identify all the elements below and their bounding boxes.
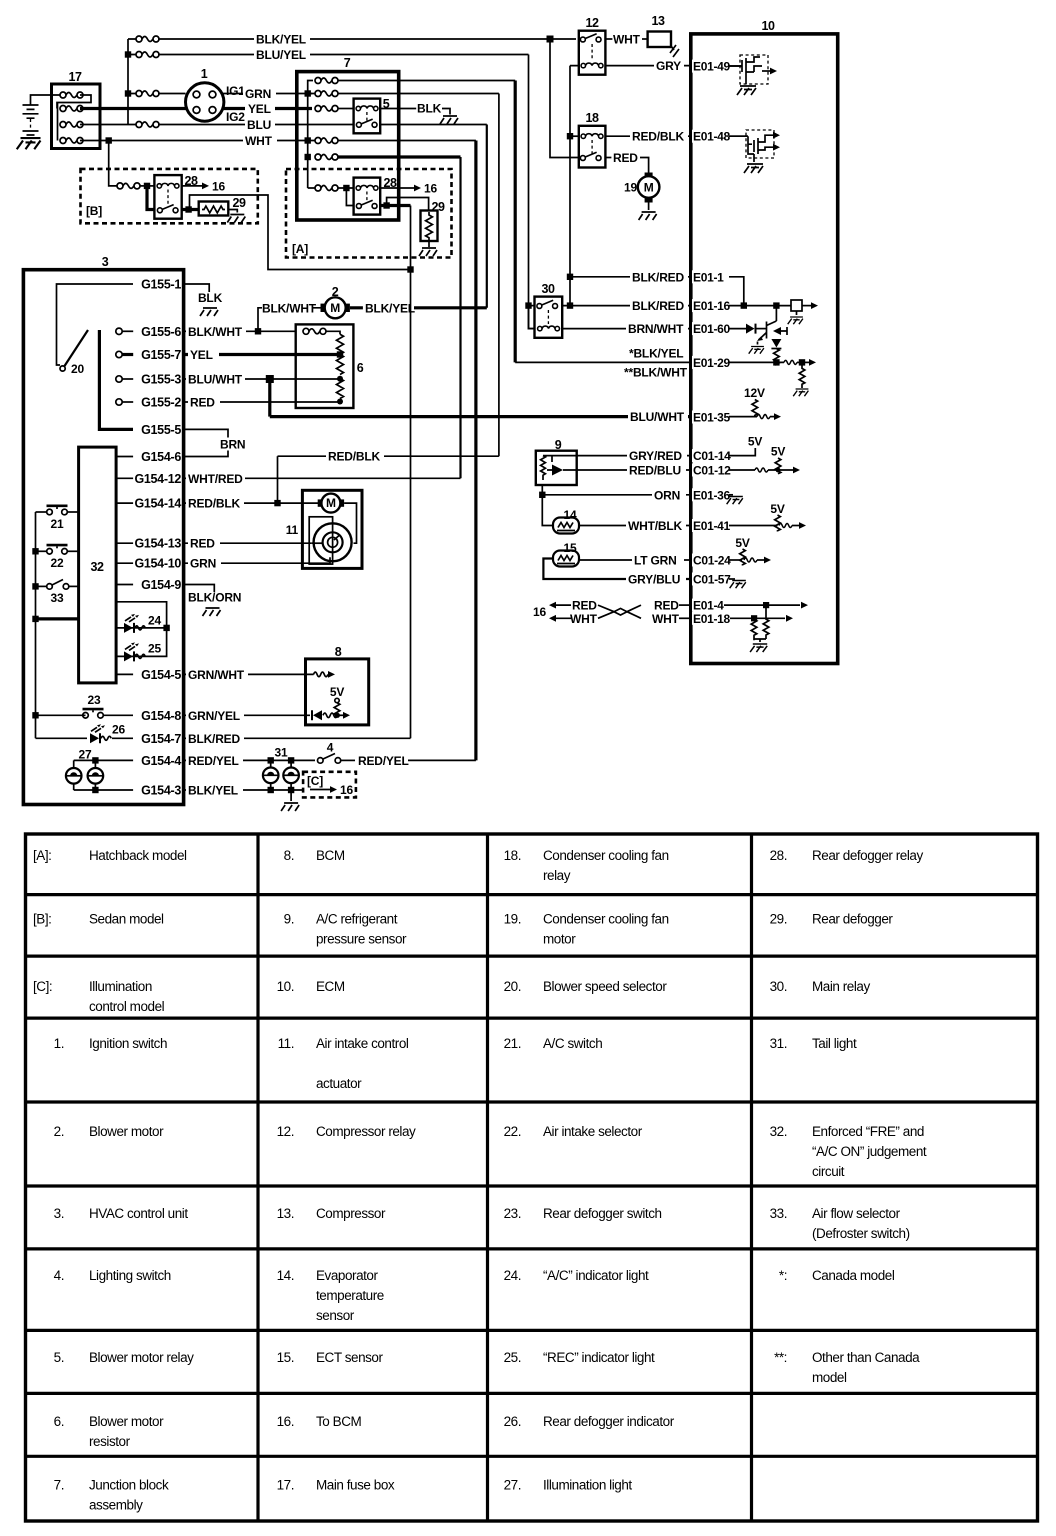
wire sedan tap up and right to x268	[190, 195, 411, 270]
svg-text:To BCM: To BCM	[316, 1414, 362, 1429]
blower motor 2	[321, 297, 350, 318]
svg-text:G155-1: G155-1	[141, 278, 181, 292]
svg-text:RED/BLK: RED/BLK	[188, 497, 240, 511]
wire BRN U link G155-5 to G154-6	[184, 429, 228, 456]
svg-text:BLU/WHT: BLU/WHT	[188, 373, 243, 387]
wire ground stub lamp31	[290, 790, 292, 801]
svg-text:BLK/RED: BLK/RED	[188, 732, 240, 746]
wire sensor9 bottom chain	[542, 485, 553, 526]
resistor E01-18 branch	[751, 618, 757, 640]
legend 6 Blower motor resistor	[54, 1414, 164, 1449]
svg-text:G154-13: G154-13	[134, 537, 181, 551]
pin G154-14	[134, 497, 181, 511]
label 22	[51, 556, 64, 570]
wire vertical x460.5 thick fuseD to WHT/RED	[459, 157, 461, 478]
svg-text:GRN/YEL: GRN/YEL	[188, 709, 240, 723]
wire BLK/RED row G154-7	[184, 737, 411, 739]
svg-text:5V: 5V	[330, 685, 344, 699]
svg-text:HVAC control unit: HVAC control unit	[89, 1206, 188, 1221]
svg-text:E01-35: E01-35	[693, 411, 731, 425]
label BLK/YEL	[254, 32, 310, 47]
svg-text:C01-12: C01-12	[693, 464, 731, 478]
legend 19 Condenser cooling fan motor	[504, 912, 669, 947]
label 15	[564, 541, 577, 555]
wire WHT/RED row G154-12	[184, 477, 461, 479]
label E01-60	[692, 322, 731, 336]
svg-text:BLK/WHT: BLK/WHT	[262, 301, 317, 315]
legend 5 Blower motor relay	[54, 1350, 194, 1365]
wire E01-49 row	[729, 65, 742, 67]
wire switch output sedan to resistor29	[182, 208, 199, 211]
svg-text:RED/BLU: RED/BLU	[629, 464, 681, 478]
wire E01-1 row	[570, 276, 691, 278]
node dot sw33	[32, 583, 38, 589]
resistor 5V E01-41	[775, 515, 781, 532]
svg-text:10: 10	[762, 19, 775, 33]
svg-text:Rear defogger switch: Rear defogger switch	[543, 1206, 662, 1221]
wire BLU fuse row from bus	[128, 124, 297, 126]
label WHT	[243, 134, 277, 148]
wire G155-1 internal to switch 20	[57, 284, 134, 365]
svg-text:G155-6: G155-6	[141, 325, 181, 339]
svg-text:C01-57: C01-57	[693, 573, 731, 587]
wire G154-3 row internal	[74, 789, 133, 791]
legend 30 Main relay	[770, 979, 871, 994]
node dot bus GRN row	[305, 90, 311, 96]
svg-text:24.: 24.	[504, 1268, 521, 1283]
legend 29 Rear defogger	[770, 912, 894, 927]
ground mosfet1	[737, 86, 756, 95]
wire G155-1 to BLK ground	[184, 284, 210, 292]
label [A]	[292, 242, 308, 256]
legend 33 Air flow selector (Defroster s	[770, 1206, 910, 1241]
rear defogger relay 28 hatchback	[354, 178, 381, 215]
label BLK/WHT blower	[262, 301, 317, 315]
svg-text:G154-8: G154-8	[141, 709, 181, 723]
wire E01-18 internal	[730, 615, 793, 622]
ground BLK G155-1	[200, 308, 218, 316]
label 8	[335, 645, 342, 659]
wire E01-16 internal	[729, 305, 791, 307]
svg-text:30: 30	[542, 282, 555, 296]
node dot sedan fuse out	[144, 183, 150, 189]
fuse on GRN row	[136, 91, 159, 97]
wire G154-14 stub	[116, 502, 133, 504]
svg-text:3.: 3.	[54, 1206, 64, 1221]
svg-text:BLU: BLU	[247, 118, 271, 132]
blower speed selector 20	[60, 330, 88, 371]
svg-text:7: 7	[344, 56, 351, 70]
svg-text:21.: 21.	[504, 1036, 521, 1051]
svg-text:BLK/ORN: BLK/ORN	[188, 591, 241, 605]
pin G154-8	[141, 709, 181, 723]
svg-text:14.: 14.	[277, 1268, 294, 1283]
label 29 sedan	[233, 196, 246, 210]
actuator position sensor 11	[309, 517, 351, 564]
label 13	[652, 14, 665, 28]
label ORN	[652, 488, 686, 502]
label GRY/RED	[627, 449, 687, 463]
wire bus vertical x128	[127, 39, 129, 125]
legend [A] Hatchback model	[33, 848, 187, 863]
fuse on YEL row in box7	[315, 106, 338, 112]
resistor E01-4 branch	[763, 605, 769, 639]
wire BLK/YEL row G154-3	[184, 789, 304, 791]
svg-text:29: 29	[233, 196, 246, 210]
svg-text:RED: RED	[613, 151, 638, 165]
svg-text:32: 32	[91, 560, 104, 574]
mosfet E01-48	[729, 130, 780, 162]
legend 8 BCM	[284, 848, 345, 863]
wire fuse E row to relay 28	[308, 187, 354, 189]
label BLU/WHT E01-35	[628, 410, 688, 424]
label RED/YEL right	[358, 754, 409, 768]
label BLK/RED E01-1	[630, 270, 688, 284]
wire G154-9 stub	[116, 584, 133, 586]
svg-text:“A/C ON” judgement: “A/C ON” judgement	[812, 1144, 927, 1159]
svg-text:RED/YEL: RED/YEL	[188, 754, 239, 768]
legend 12 Compressor relay	[277, 1124, 416, 1139]
label 16 box C	[340, 783, 353, 797]
rear defogger 29 hatchback	[421, 211, 438, 242]
svg-text:Illumination light: Illumination light	[543, 1477, 632, 1492]
ground C01-57	[729, 579, 746, 588]
svg-text:M: M	[644, 181, 654, 195]
A/C switch 21	[36, 505, 79, 515]
label 19	[624, 181, 637, 195]
svg-text:Air intake control: Air intake control	[316, 1036, 409, 1051]
svg-text:5V: 5V	[770, 502, 784, 516]
label 12V	[744, 386, 765, 400]
label 14	[564, 508, 577, 522]
svg-text:19.: 19.	[504, 912, 521, 927]
legend 26 Rear defogger indicator	[504, 1414, 675, 1429]
svg-text:30.: 30.	[770, 979, 787, 994]
transistor E01-60	[749, 321, 787, 354]
label BLK/YEL blower	[365, 301, 415, 315]
label 5V E01-41	[770, 502, 784, 516]
ground under battery	[17, 138, 41, 149]
svg-text:9.: 9.	[284, 912, 294, 927]
svg-text:RED/YEL: RED/YEL	[358, 754, 409, 768]
wire LT GRN row	[579, 559, 691, 561]
legend 17 Main fuse box	[277, 1477, 395, 1492]
ground motor 19	[639, 212, 657, 220]
svg-text:Compressor relay: Compressor relay	[316, 1124, 416, 1139]
label C01-24	[692, 554, 731, 568]
label RED/BLK upper	[326, 450, 384, 464]
svg-text:Main fuse box: Main fuse box	[316, 1477, 395, 1492]
wire vertical x486.8 BLU to BLK/YEL	[486, 125, 488, 308]
wire vertical x498.9 GRN to RED/BLK	[498, 94, 500, 457]
wire YEL from ignition to box7	[224, 107, 312, 110]
wire BLK/WHT blower stub	[258, 308, 321, 332]
label 4	[327, 741, 334, 755]
svg-text:RED: RED	[572, 599, 597, 613]
wire RED/YEL to vertical	[408, 759, 476, 761]
wire arrow 16 in box C	[310, 786, 337, 793]
wire GRN from ignition to box7	[221, 93, 312, 95]
node dot E01-29 x802	[799, 359, 805, 365]
label 7	[344, 56, 351, 70]
wire BLK/YEL top feed row	[128, 38, 576, 40]
ECM box 10	[691, 34, 838, 664]
svg-text:G154-12: G154-12	[134, 472, 181, 486]
wire YEL thick from box17 to ignition	[80, 107, 186, 110]
legend 7 Junction block assembly	[54, 1477, 169, 1512]
svg-text:Evaporator: Evaporator	[316, 1268, 378, 1283]
wire E01-48 row	[729, 135, 748, 137]
pin G155-6	[141, 325, 181, 339]
svg-text:ECM: ECM	[316, 979, 345, 994]
wire BLK elbow to ground	[442, 109, 450, 115]
wire vertical x550 BLKYEL to relay18	[550, 39, 579, 158]
label 29 hatchback	[432, 200, 445, 214]
node dot E01-29 x776.4	[773, 359, 779, 365]
label 30	[542, 282, 555, 296]
svg-text:WHT/BLK: WHT/BLK	[628, 519, 682, 533]
svg-text:control model: control model	[89, 999, 165, 1014]
svg-text:8: 8	[335, 645, 342, 659]
contact G155-2	[116, 399, 133, 405]
wire BLU row through relay 5 switch	[297, 124, 487, 126]
label 2	[332, 285, 339, 299]
wire BLU row3 out	[80, 124, 128, 126]
main relay 30	[535, 297, 563, 338]
svg-text:YEL: YEL	[248, 102, 271, 116]
wire GRN fuse row from bus	[128, 93, 186, 95]
diode down x776.4	[771, 339, 781, 349]
fuse C in box7	[315, 138, 338, 144]
node dot sedan switch out	[185, 206, 191, 212]
wire E01-16 row	[562, 305, 691, 307]
label BLU/WHT row	[186, 373, 245, 387]
wire G154-13 stub	[116, 542, 133, 544]
svg-text:G154-3: G154-3	[141, 784, 181, 798]
wire LED bracket	[116, 602, 167, 657]
label WHT/RED	[186, 472, 245, 486]
label E01-49	[692, 60, 731, 74]
hatchback model box [A]	[286, 169, 452, 258]
node dot fuse E out	[343, 185, 349, 191]
wire GRY/RED row	[577, 455, 691, 457]
label 5V C01-14	[748, 435, 762, 449]
svg-text:Condenser cooling fan: Condenser cooling fan	[543, 848, 669, 863]
contact G155-6	[116, 328, 133, 334]
svg-text:13.: 13.	[277, 1206, 294, 1221]
svg-text:25.: 25.	[504, 1350, 521, 1365]
svg-text:M: M	[330, 301, 340, 315]
label BLK/RED E01-16	[630, 299, 688, 313]
label E01-18	[692, 612, 731, 626]
svg-text:resistor: resistor	[89, 1434, 131, 1449]
wire row1 link in box 17	[52, 95, 92, 141]
svg-text:26: 26	[112, 723, 125, 737]
svg-text:Other than Canada: Other than Canada	[812, 1350, 920, 1365]
wire BLK/WHT row	[184, 330, 296, 332]
wire ORN row	[542, 494, 691, 496]
svg-text:assembly: assembly	[89, 1497, 143, 1512]
svg-text:1: 1	[201, 67, 208, 81]
svg-text:E01-4: E01-4	[693, 599, 724, 613]
legend 1 Ignition switch	[54, 1036, 167, 1051]
label 28 sedan	[185, 174, 198, 188]
wire BRN/WHT row	[562, 328, 691, 330]
svg-text:GRN/WHT: GRN/WHT	[188, 668, 245, 682]
svg-text:sensor: sensor	[316, 1308, 355, 1323]
label GRY/BLU	[626, 573, 686, 587]
ground twisted pair	[750, 644, 767, 652]
node dots lamps31 top	[268, 757, 295, 763]
svg-text:circuit: circuit	[812, 1164, 845, 1179]
svg-text:GRY/RED: GRY/RED	[629, 449, 682, 463]
wire BLK/YEL blower thick	[350, 306, 487, 309]
wire motor11 right down	[344, 503, 356, 543]
sedan model box [B]	[81, 169, 258, 223]
label BLK	[417, 102, 442, 116]
svg-text:BLU/WHT: BLU/WHT	[630, 410, 685, 424]
label 32	[91, 560, 104, 574]
svg-text:33: 33	[51, 591, 64, 605]
wire resistor29 sedan to ground	[228, 210, 237, 213]
wire vertical x515.2 thick fuseA to E01-29	[514, 81, 517, 363]
label WHT right	[652, 612, 680, 626]
svg-text:BRN/WHT: BRN/WHT	[628, 322, 684, 336]
svg-text:22.: 22.	[504, 1124, 521, 1139]
label E01-48	[692, 130, 731, 144]
ground mosfet2	[744, 164, 763, 173]
svg-text:temperature: temperature	[316, 1288, 384, 1303]
svg-text:IG2: IG2	[226, 110, 245, 124]
svg-text:15: 15	[564, 541, 577, 555]
label E01-41	[692, 519, 731, 533]
node dot chain YEL	[337, 351, 343, 357]
svg-text:BLK: BLK	[198, 291, 223, 305]
label BLK/ORN	[188, 591, 241, 605]
node dot LED24 right	[163, 625, 169, 631]
resistor ground branch E01-29	[793, 362, 808, 396]
node dot bus WHT row	[305, 137, 311, 143]
svg-text:E01-16: E01-16	[693, 299, 731, 313]
wire RED/BLU row	[577, 469, 691, 471]
label 23	[88, 693, 101, 707]
svg-text:5V: 5V	[771, 445, 785, 459]
svg-text:BLK/YEL: BLK/YEL	[256, 33, 306, 47]
fuse A in box7	[315, 78, 338, 84]
label C01-14	[692, 449, 731, 463]
wire BLU/WHT thick down to E01-35	[268, 379, 271, 417]
wire WHT to BCM arrow	[549, 615, 571, 622]
label WHT left	[570, 612, 598, 626]
svg-text:Air intake selector: Air intake selector	[543, 1124, 643, 1139]
svg-text:BLU/YEL: BLU/YEL	[256, 48, 306, 62]
wire G154-5 stub	[116, 673, 133, 675]
svg-text:RED: RED	[190, 537, 215, 551]
svg-text:13: 13	[652, 14, 665, 28]
wire YEL thick row	[184, 353, 340, 356]
wire C01-12 internal	[729, 467, 800, 474]
label BLK/WHT row3	[186, 325, 246, 339]
ECM internal E01-1 drop	[729, 277, 744, 306]
legend 3 HVAC control unit	[54, 1206, 189, 1221]
wire RED elbow to motor19	[640, 158, 649, 173]
wire BLU/WHT row	[184, 378, 340, 380]
label GRN/WHT	[186, 668, 248, 682]
svg-text:29: 29	[432, 200, 445, 214]
lighting switch 4	[318, 754, 356, 764]
wire GRN/WHT row G154-5	[184, 673, 314, 675]
svg-text:16: 16	[212, 179, 225, 193]
svg-text:26.: 26.	[504, 1414, 521, 1429]
label 16 sedan	[212, 179, 225, 193]
label GRN G154-10	[188, 557, 221, 571]
svg-text:[C]:: [C]:	[33, 979, 52, 994]
wire left bus x35.5	[35, 512, 37, 738]
legend 11 Air intake control actuator	[278, 1036, 409, 1091]
legend 20 Blower speed selector	[504, 979, 668, 994]
svg-text:BLK/RED: BLK/RED	[632, 270, 684, 284]
node dot x743.8 E01-16	[741, 302, 747, 308]
contact G155-3	[116, 376, 133, 382]
label 5	[383, 97, 390, 111]
svg-text:Tail light: Tail light	[812, 1036, 857, 1051]
svg-text:Blower speed selector: Blower speed selector	[543, 979, 667, 994]
svg-text:Sedan model: Sedan model	[89, 912, 164, 927]
svg-text:23.: 23.	[504, 1206, 521, 1221]
svg-text:WHT: WHT	[613, 33, 641, 47]
wire selector bus x99.4	[99, 330, 133, 429]
svg-text:Main relay: Main relay	[812, 979, 870, 994]
wire node down to switch row sedan	[147, 186, 154, 210]
junction block assembly 7	[297, 72, 399, 220]
legend 22 Air intake selector	[504, 1124, 643, 1139]
svg-text:E01-29: E01-29	[693, 356, 731, 370]
label 9	[555, 438, 562, 452]
label WHT relay12	[613, 33, 641, 47]
wire G154-6 stub	[116, 456, 133, 458]
svg-text:WHT: WHT	[245, 134, 273, 148]
wire arrow to 16 from relay28	[380, 185, 421, 192]
label *BLK/YEL	[629, 347, 683, 361]
label E01-4	[692, 599, 724, 613]
label RED left	[572, 599, 597, 613]
label RED G154-13	[188, 537, 220, 551]
resistor 12V to E01-35	[752, 400, 758, 417]
wire bus x307.7 in box7	[307, 94, 309, 189]
wire C01-14 internal to 5V	[729, 448, 755, 456]
ground under resistor 29	[419, 248, 437, 256]
legend 9 A/C refrigerant pressure senso	[284, 912, 407, 947]
svg-text:16: 16	[424, 182, 437, 196]
ground at BLK	[440, 116, 458, 124]
rear defogger switch 23	[36, 708, 134, 718]
label 26	[112, 723, 125, 737]
pin G154-3	[141, 784, 181, 798]
legend 28 Rear defogger relay	[770, 848, 924, 863]
svg-text:6.: 6.	[54, 1414, 64, 1429]
legend [B] Sedan model	[33, 912, 164, 927]
legend 32 Enforced “FRE” and “A/C ON” ju	[770, 1124, 927, 1179]
svg-text:E01-49: E01-49	[693, 60, 731, 74]
svg-text:19: 19	[624, 181, 637, 195]
label BLK/YEL row	[186, 784, 243, 798]
svg-text:G154-9: G154-9	[141, 578, 181, 592]
pin G154-9	[141, 578, 181, 592]
wire E01-35 internal	[729, 413, 781, 420]
svg-text:33.: 33.	[770, 1206, 787, 1221]
label BRN	[218, 438, 252, 452]
svg-text:**BLK/WHT: **BLK/WHT	[624, 366, 688, 380]
